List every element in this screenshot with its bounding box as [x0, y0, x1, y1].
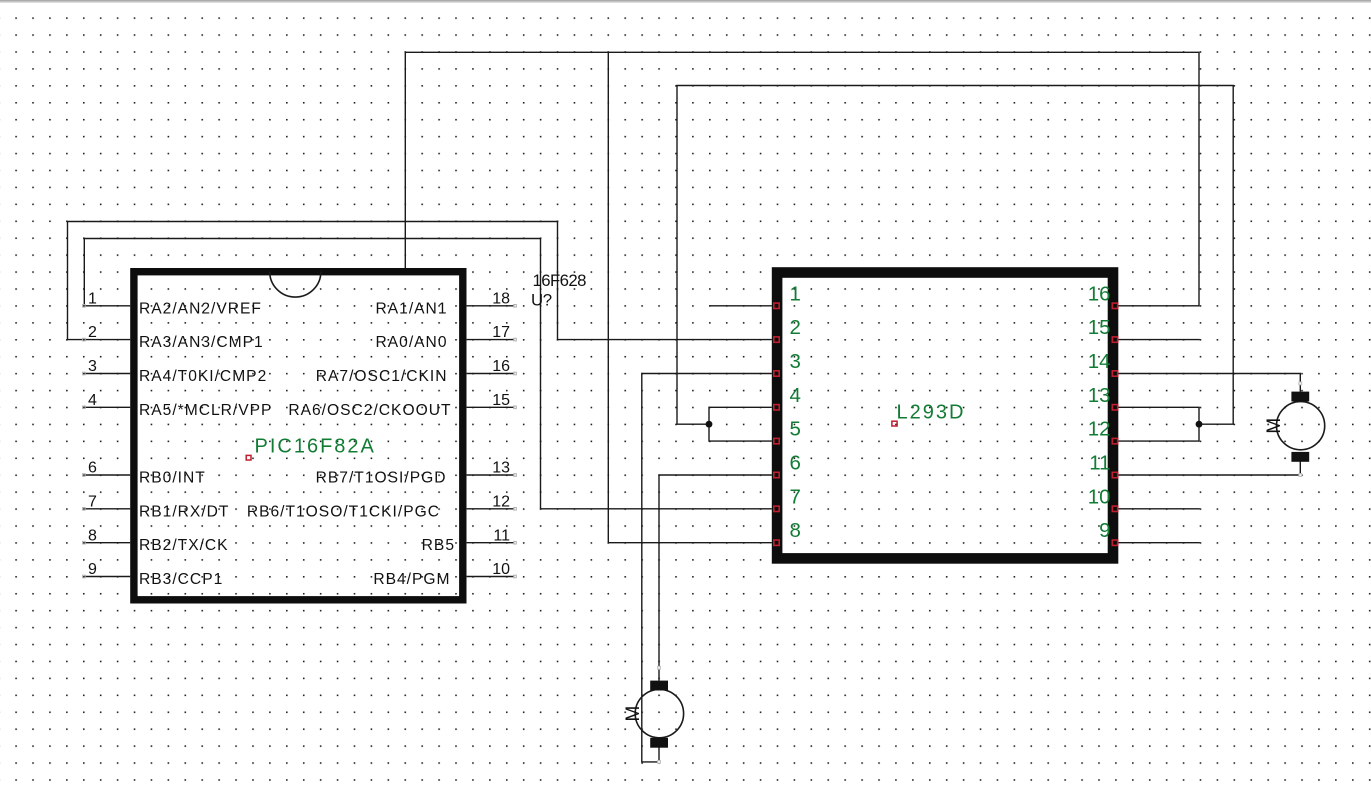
- junction node A left: [706, 421, 713, 428]
- motor M1 right: [1264, 382, 1325, 476]
- U2 pin10 connection square: [1112, 506, 1117, 511]
- junction node B right: [1196, 421, 1203, 428]
- svg-text:13: 13: [1088, 384, 1111, 407]
- U1 pin2 end marker: [83, 338, 86, 341]
- svg-text:11: 11: [493, 527, 510, 544]
- svg-text:12: 12: [1088, 418, 1111, 441]
- svg-text:2: 2: [790, 316, 801, 339]
- svg-text:7: 7: [790, 485, 801, 508]
- svg-text:RB5: RB5: [422, 537, 455, 554]
- svg-text:11: 11: [1089, 452, 1110, 475]
- wire net U1.RA2 pin1 to U2.IN2 pin7: [84, 239, 772, 509]
- svg-text:6: 6: [790, 452, 801, 475]
- M1 top terminal: [1291, 392, 1309, 402]
- U1 pin6 end marker: [83, 474, 86, 477]
- U2 pin8 connection square: [774, 540, 779, 545]
- U2 pin14 connection square: [1112, 371, 1117, 376]
- pin stub U1 pin6: [84, 474, 130, 476]
- svg-text:RB0/INT: RB0/INT: [139, 470, 206, 487]
- svg-text:16: 16: [492, 358, 510, 375]
- M2 bottom terminal: [650, 738, 668, 748]
- M1 bottom terminal: [1291, 452, 1309, 462]
- svg-text:8: 8: [88, 527, 97, 544]
- svg-text:10: 10: [1088, 485, 1111, 508]
- U2 pin2 connection square: [774, 337, 779, 342]
- M1 bottom pin end marker: [1299, 474, 1302, 477]
- pin stub U1 pin13: [467, 474, 515, 476]
- svg-text:16F628: 16F628: [533, 271, 587, 290]
- svg-text:8: 8: [790, 519, 801, 542]
- motor M2 bottom: [623, 666, 684, 763]
- svg-text:1: 1: [88, 290, 97, 307]
- svg-text:RB4/PGM: RB4/PGM: [373, 571, 450, 588]
- wire branch from top net to U2 pin8: [608, 52, 772, 542]
- U2 pin1 connection square: [774, 303, 779, 308]
- svg-text:15: 15: [1088, 316, 1111, 339]
- IC U2 L293D body: [777, 273, 1113, 559]
- wire U2.OUT2 pin6 to motor M2 top terminal: [659, 475, 772, 681]
- M1 circle: [1277, 402, 1325, 450]
- svg-text:RA5/*MCLR/VPP: RA5/*MCLR/VPP: [139, 402, 272, 419]
- svg-text:RA7/OSC1/CKIN: RA7/OSC1/CKIN: [316, 368, 448, 385]
- M2 top pin end marker: [658, 666, 661, 669]
- wire top net from U1 top edge to U2.VCC pin16: [405, 52, 1199, 305]
- U2 pin3 connection square: [774, 371, 779, 376]
- svg-text:13: 13: [492, 460, 510, 477]
- U2 pin12 connection square: [1112, 438, 1117, 443]
- svg-text:18: 18: [492, 290, 510, 307]
- M2 circle: [635, 689, 683, 737]
- pin stub U1 pin7: [84, 508, 130, 510]
- U1 pin7 end marker: [83, 508, 86, 511]
- svg-text:4: 4: [790, 384, 801, 407]
- IC U1 notch: [270, 272, 321, 298]
- svg-text:RA3/AN3/CMP1: RA3/AN3/CMP1: [139, 334, 264, 351]
- svg-text:17: 17: [492, 324, 510, 341]
- pin stub U1 pin15: [467, 406, 515, 408]
- wire U2.OUT3 pin14 to motor M1 top terminal: [1118, 374, 1300, 392]
- U2 origin marker: [892, 421, 897, 426]
- U1 pin12 end marker: [514, 508, 517, 511]
- U2 pin11 connection square: [1112, 472, 1117, 477]
- pin stub U1 pin11: [467, 542, 515, 544]
- wire U2.OUT1 pin3 to motor M2 bottom terminal: [642, 374, 772, 762]
- U1 pin4 end marker: [83, 406, 86, 409]
- pin stub U1 pin8: [84, 542, 130, 544]
- U2 pin5 connection square: [774, 438, 779, 443]
- U1 pin13 end marker: [514, 474, 517, 477]
- svg-text:RA4/T0KI/CMP2: RA4/T0KI/CMP2: [139, 368, 267, 385]
- wire bracket U2 pins 13 and 12: [1118, 407, 1199, 441]
- svg-text:RA6/OSC2/CKOOUT: RA6/OSC2/CKOOUT: [288, 402, 451, 419]
- U1 pin18 end marker: [514, 305, 517, 308]
- pin stub U1 pin17: [467, 339, 515, 341]
- svg-text:RB2/TX/CK: RB2/TX/CK: [139, 537, 229, 554]
- svg-text:RB3/CCP1: RB3/CCP1: [139, 571, 223, 588]
- wire net U1.RA3 pin2 to U2.IN1 pin2: [68, 222, 772, 340]
- U2 pin16 connection square: [1112, 303, 1117, 308]
- pin stub U2 pin9: [1118, 542, 1200, 544]
- svg-text:RB6/T1OSO/T1CKI/PGC: RB6/T1OSO/T1CKI/PGC: [247, 503, 440, 520]
- M2 top terminal: [650, 681, 668, 691]
- svg-text:RB7/T1OSI/PGD: RB7/T1OSI/PGD: [316, 470, 447, 487]
- svg-text:3: 3: [790, 350, 801, 373]
- wire bracket U2 pins 4 and 5: [709, 407, 772, 441]
- svg-text:RA0/AN0: RA0/AN0: [375, 334, 447, 351]
- svg-text:L293D: L293D: [897, 402, 966, 424]
- svg-text:?: ?: [543, 290, 552, 309]
- pin stub U1 pin9: [84, 576, 130, 578]
- U1 pin9 end marker: [83, 575, 86, 578]
- svg-text:16: 16: [1088, 282, 1111, 305]
- U1 pin16 end marker: [514, 372, 517, 375]
- pin stub U1 pin16: [467, 373, 515, 375]
- svg-text:1: 1: [790, 282, 801, 305]
- svg-text:7: 7: [88, 493, 97, 510]
- svg-text:6: 6: [88, 460, 97, 477]
- U2 pin7 connection square: [774, 506, 779, 511]
- svg-text:M: M: [1264, 418, 1285, 434]
- pin stub U1 pin3: [84, 373, 130, 375]
- U2 pin4 connection square: [774, 405, 779, 410]
- svg-text:U: U: [531, 290, 543, 309]
- svg-text:12: 12: [492, 493, 510, 510]
- pin stub U1 pin4: [84, 406, 130, 408]
- wire U2.OUT4 pin11 to motor M1 bottom terminal: [1118, 461, 1300, 475]
- U1 pin17 end marker: [514, 338, 517, 341]
- svg-text:RA1/AN1: RA1/AN1: [375, 300, 447, 317]
- svg-text:4: 4: [88, 392, 97, 409]
- U2 pin9 connection square: [1112, 540, 1117, 545]
- svg-text:14: 14: [1088, 350, 1111, 373]
- svg-text:5: 5: [790, 418, 801, 441]
- svg-text:9: 9: [1099, 519, 1110, 542]
- svg-text:10: 10: [492, 561, 510, 578]
- pin stub U1 pin18: [467, 305, 515, 307]
- svg-text:RA2/AN2/VREF: RA2/AN2/VREF: [139, 300, 262, 317]
- svg-text:M: M: [623, 706, 644, 722]
- U1 pin3 end marker: [83, 372, 86, 375]
- U1 pin8 end marker: [83, 541, 86, 544]
- pin stub U1 pin10: [467, 576, 515, 578]
- svg-text:2: 2: [88, 324, 97, 341]
- svg-text:RB1/RX/DT: RB1/RX/DT: [139, 503, 229, 520]
- U2 pin6 connection square: [774, 472, 779, 477]
- U1 pin1 end marker: [83, 305, 86, 308]
- U2 pin13 connection square: [1112, 405, 1117, 410]
- svg-text:3: 3: [88, 358, 97, 375]
- wire net joining left junction to right junction via top: [677, 86, 1233, 425]
- svg-text:15: 15: [492, 392, 510, 409]
- U1 origin marker: [246, 455, 251, 460]
- pin stub U2 pin10: [1118, 508, 1200, 510]
- pin stub U2 pin15: [1118, 339, 1200, 341]
- M1 top pin end marker: [1299, 382, 1302, 385]
- U1 pin11 end marker: [514, 541, 517, 544]
- pin stub U1 pin12: [467, 508, 515, 510]
- svg-text:PIC16F82A: PIC16F82A: [255, 436, 376, 458]
- IC U1 PIC16F82A body: [134, 272, 463, 600]
- U1 pin15 end marker: [514, 406, 517, 409]
- M2 bottom pin end marker: [658, 761, 661, 764]
- U1 pin10 end marker: [514, 575, 517, 578]
- svg-text:9: 9: [88, 561, 97, 578]
- U2 pin15 connection square: [1112, 337, 1117, 342]
- pin stub U2 pin1: [710, 305, 772, 307]
